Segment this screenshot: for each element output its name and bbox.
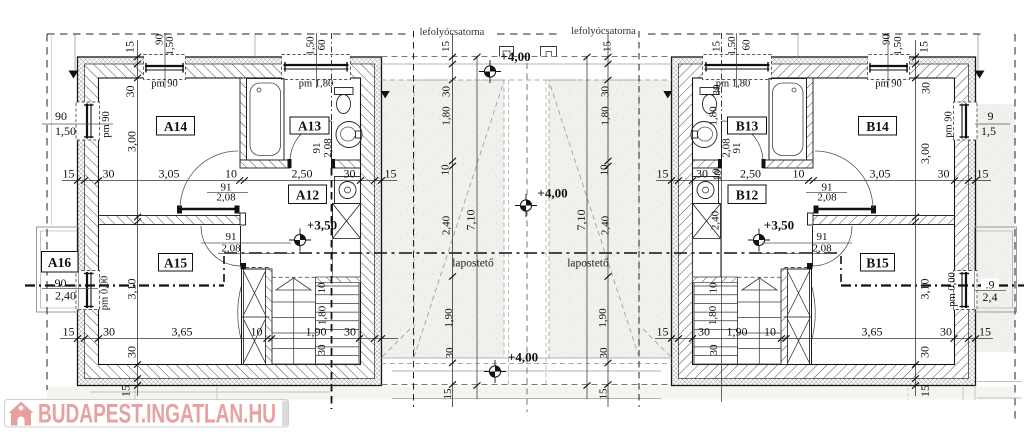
benchmark symbol +3,50 unit A	[289, 229, 311, 252]
unit B horizontal chain	[656, 177, 991, 183]
svg-text:30: 30	[708, 344, 720, 356]
roof slope diagonal right	[549, 81, 639, 357]
main horizontal section dash-dot line	[224, 252, 841, 254]
svg-text:10: 10	[316, 282, 328, 294]
roof top edge dashed line	[382, 56, 672, 58]
svg-text:15: 15	[119, 385, 133, 397]
svg-text:A13: A13	[298, 119, 321, 134]
svg-text:A12: A12	[296, 188, 319, 203]
flat roof panel border right	[549, 80, 639, 358]
unit A interior vertical chain	[134, 40, 141, 396]
centre strip right dashed edge	[545, 80, 547, 385]
svg-text:2,40: 2,40	[600, 215, 612, 235]
svg-text:10: 10	[440, 164, 452, 176]
valley diagonal left corner	[383, 327, 413, 357]
unit A horizontal chain	[62, 177, 397, 183]
A15 door leader lines	[201, 242, 291, 244]
svg-text:15: 15	[385, 167, 397, 181]
svg-text:1,50: 1,50	[726, 36, 738, 56]
room label B15	[861, 254, 895, 272]
svg-text:10: 10	[712, 170, 724, 182]
svg-text:BUDAPEST.INGATLAN.HU: BUDAPEST.INGATLAN.HU	[38, 399, 276, 429]
svg-text:2,50: 2,50	[740, 167, 761, 181]
svg-text:30: 30	[344, 325, 356, 339]
courtyard 7,10 overall line right	[584, 54, 591, 399]
courtyard 7,10 overall line left	[474, 54, 481, 399]
unit A interior axis dash-dot y285	[99, 284, 224, 286]
roof bottom stipple edge line	[382, 357, 672, 359]
svg-text:pm 90: pm 90	[944, 111, 955, 138]
svg-text:2,08: 2,08	[322, 138, 334, 158]
svg-text:1,80: 1,80	[317, 305, 329, 325]
room label A15	[159, 254, 193, 272]
svg-text:60: 60	[741, 39, 753, 51]
svg-text:lapostető: lapostető	[452, 258, 494, 270]
house icon roof	[9, 402, 34, 414]
roof bottom edge dashed line	[382, 384, 672, 386]
A16 window leader line	[42, 288, 98, 290]
svg-text:30: 30	[918, 346, 932, 358]
svg-text:15: 15	[63, 325, 75, 339]
unit B geometry (mirrored copy of unit A)	[663, 33, 1024, 386]
svg-text:10: 10	[764, 325, 776, 339]
svg-text:15: 15	[440, 41, 452, 53]
svg-text:lapostető: lapostető	[567, 258, 609, 270]
svg-text:B13: B13	[736, 119, 759, 134]
top site boundary dashed line	[47, 33, 985, 35]
svg-text:30: 30	[103, 167, 115, 181]
svg-text:lefolyócsatorna: lefolyócsatorna	[571, 26, 636, 37]
room label A12	[289, 185, 327, 204]
svg-text:30: 30	[344, 167, 356, 181]
svg-text:15: 15	[979, 325, 991, 339]
unit B interior vertical chain	[912, 40, 919, 396]
B right window leader line	[975, 123, 1010, 125]
svg-text:15: 15	[602, 41, 614, 53]
svg-text:30: 30	[444, 347, 456, 359]
svg-text:B14: B14	[866, 119, 889, 134]
flat roof panel border left	[414, 80, 504, 358]
svg-text:1,90: 1,90	[597, 308, 609, 328]
stipple band below buildings	[47, 387, 1015, 400]
svg-text:15: 15	[657, 167, 669, 181]
svg-text:1,90: 1,90	[727, 325, 748, 339]
B14 door leader line	[806, 192, 847, 194]
svg-text:pm 90: pm 90	[151, 79, 178, 90]
centre axis dashed line	[526, 63, 528, 412]
roof inner face dashed line	[382, 79, 672, 81]
svg-text:9: 9	[988, 109, 994, 123]
svg-text:2,40: 2,40	[55, 289, 76, 303]
svg-text:15: 15	[917, 41, 931, 53]
svg-text:+3,50: +3,50	[307, 218, 337, 233]
svg-text:30: 30	[103, 325, 115, 339]
svg-text:91: 91	[226, 231, 237, 243]
svg-text:30: 30	[441, 86, 453, 98]
svg-text:91: 91	[817, 231, 828, 243]
roof slope diagonal left	[414, 81, 504, 357]
svg-text:1,50: 1,50	[892, 36, 904, 56]
svg-text:7,10: 7,10	[464, 210, 478, 231]
svg-text:1,90: 1,90	[443, 308, 455, 328]
room label B12	[728, 185, 766, 204]
courtyard stipple right panel	[549, 80, 672, 358]
valley diagonal right corner	[641, 327, 671, 357]
svg-text:30: 30	[938, 167, 950, 181]
svg-text:A14: A14	[164, 119, 187, 134]
svg-text:pm 0,00: pm 0,00	[947, 272, 958, 306]
terrace marks below unit A	[90, 386, 330, 399]
lower terrace line	[392, 398, 661, 400]
B15 window labels	[981, 279, 999, 290]
svg-text:2,08: 2,08	[817, 192, 837, 204]
courtyard right vertical chain	[605, 33, 612, 407]
svg-text:+4,00: +4,00	[500, 49, 530, 64]
svg-text:+4,00: +4,00	[537, 186, 567, 201]
svg-text:15: 15	[711, 41, 723, 53]
gutter outlet box right	[541, 47, 557, 57]
svg-text:15: 15	[123, 41, 137, 53]
svg-text:3,65: 3,65	[172, 325, 193, 339]
room label A16	[42, 252, 79, 273]
svg-text:30: 30	[940, 325, 952, 339]
left gutter dashed line	[413, 31, 415, 407]
unit B axis jog vertical	[840, 256, 842, 286]
benchmark symbol courtyard bottom	[484, 360, 506, 383]
unit B interior axis dash-dot y285	[841, 284, 954, 286]
unit A section heavy dashed line	[331, 168, 333, 409]
svg-text:3,00: 3,00	[918, 143, 932, 164]
svg-text:15: 15	[977, 167, 989, 181]
svg-text:A16: A16	[48, 255, 71, 270]
svg-text:1,80: 1,80	[600, 106, 612, 126]
svg-text:2,08: 2,08	[721, 138, 733, 158]
svg-text:30: 30	[919, 82, 933, 94]
benchmark symbol courtyard middle	[515, 194, 537, 217]
svg-text:B12: B12	[736, 188, 759, 203]
terrace marks below unit B	[908, 382, 1022, 401]
svg-text:A15: A15	[164, 256, 187, 271]
svg-text:2,08: 2,08	[216, 192, 236, 204]
unit B stair dimension chain line	[721, 168, 723, 402]
svg-text:1,90: 1,90	[306, 325, 327, 339]
svg-text:10: 10	[599, 164, 611, 176]
svg-text:30: 30	[123, 86, 137, 98]
left site boundary dashed line	[46, 34, 48, 390]
svg-text:30: 30	[600, 86, 612, 98]
centre strip left dashed edge	[508, 80, 510, 385]
svg-text:15: 15	[63, 167, 75, 181]
courtyard left vertical chain	[449, 33, 456, 407]
svg-text:15: 15	[657, 325, 669, 339]
house icon roof window	[19, 406, 24, 411]
svg-text:90: 90	[881, 34, 893, 46]
svg-text:1,80: 1,80	[441, 106, 453, 126]
house icon door	[18, 417, 25, 426]
stipple strip right of unit B	[976, 104, 1015, 352]
courtyard stipple left panel	[382, 80, 504, 358]
svg-text:pm 90: pm 90	[875, 79, 902, 90]
svg-text:15: 15	[598, 388, 610, 400]
room label B13	[728, 117, 767, 134]
svg-text:+3,50: +3,50	[764, 218, 794, 233]
svg-text:60: 60	[316, 39, 328, 51]
svg-text:90: 90	[55, 109, 67, 123]
svg-text:30: 30	[598, 347, 610, 359]
svg-text:pm 0,00: pm 0,00	[100, 276, 111, 310]
room label A13	[290, 117, 329, 134]
svg-text:2,50: 2,50	[292, 167, 313, 181]
svg-text:2,40: 2,40	[710, 210, 722, 230]
terrace edge solid line	[392, 370, 661, 372]
svg-text:10: 10	[225, 167, 237, 181]
svg-text:pm 90: pm 90	[101, 111, 112, 138]
svg-text:7,10: 7,10	[574, 210, 588, 231]
svg-text:15: 15	[442, 388, 454, 400]
room label B14	[859, 117, 897, 136]
A left window leader line	[42, 123, 113, 125]
svg-text:2,40: 2,40	[441, 215, 453, 235]
B15 door leader lines	[762, 242, 852, 244]
watermark band	[5, 400, 289, 428]
svg-text:30: 30	[125, 346, 139, 358]
room label A14	[157, 117, 195, 136]
svg-text:+4,00: +4,00	[508, 350, 538, 365]
house icon body	[11, 413, 31, 426]
svg-text:15: 15	[918, 385, 932, 397]
left boundary inner thin line	[51, 34, 53, 225]
svg-text:3,05: 3,05	[870, 167, 891, 181]
unit A bottom interior chain	[60, 335, 398, 341]
svg-text:1,5: 1,5	[981, 124, 996, 138]
A14 door leader line	[207, 192, 248, 194]
roof top edge solid line	[382, 63, 672, 65]
benchmark symbol courtyard top	[479, 60, 501, 83]
right gutter dashed line	[638, 31, 640, 407]
unit B bottom interior chain	[655, 335, 993, 341]
svg-text:3,10: 3,10	[125, 279, 139, 300]
roof bottom inner face dashed	[382, 363, 672, 365]
right site boundary dashed line	[1014, 34, 1016, 420]
svg-text:3,10: 3,10	[918, 279, 932, 300]
svg-text:3,00: 3,00	[125, 131, 139, 152]
svg-text:1,50: 1,50	[305, 36, 317, 56]
svg-text:30: 30	[316, 344, 328, 356]
svg-text:10: 10	[793, 167, 805, 181]
svg-text:10: 10	[708, 282, 720, 294]
B15 window leader line	[975, 290, 1006, 292]
svg-text:3,05: 3,05	[159, 167, 180, 181]
svg-text:1,50: 1,50	[55, 124, 76, 138]
svg-text:30: 30	[698, 325, 710, 339]
unit A axis jog vertical	[223, 256, 225, 286]
svg-text:1,80: 1,80	[707, 305, 719, 325]
svg-text:3,65: 3,65	[862, 325, 883, 339]
svg-text:lefolyócsatorna: lefolyócsatorna	[420, 27, 485, 38]
unit A geometry	[25, 33, 390, 386]
benchmark symbol +3,50 unit B	[748, 229, 770, 252]
svg-text:2,4: 2,4	[983, 290, 998, 304]
svg-text:1,80: 1,80	[708, 106, 720, 126]
svg-text:10: 10	[251, 325, 263, 339]
svg-text:B15: B15	[866, 256, 889, 271]
svg-text:2,08: 2,08	[812, 243, 832, 255]
svg-text:91: 91	[731, 143, 743, 154]
svg-text:30: 30	[711, 84, 723, 96]
svg-text:2,08: 2,08	[221, 243, 241, 255]
svg-text:30: 30	[696, 167, 708, 181]
gutter outlet box left	[500, 47, 514, 57]
svg-text:pm 1,80: pm 1,80	[299, 79, 333, 90]
svg-text:1,50: 1,50	[164, 36, 176, 56]
